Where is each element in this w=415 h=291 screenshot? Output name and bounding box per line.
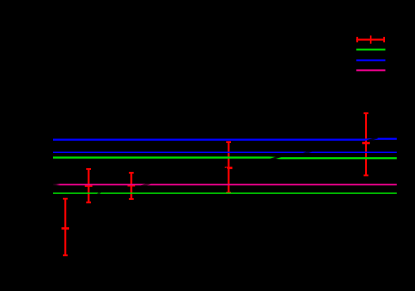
errorbar point 5: [362, 113, 370, 175]
legend green line sample: [356, 49, 385, 51]
green thin line: [53, 192, 397, 194]
errorbar point 2: [85, 169, 93, 202]
errorbar point 1: [62, 199, 70, 256]
black observed-curve notch on magenta line: [142, 183, 151, 187]
black observed-curve notch on green thin line: [97, 191, 100, 197]
black observed-curve notch over errorbar 4 marker: [223, 168, 227, 169]
errorbar point 4: [225, 142, 233, 193]
black observed-curve notch on blue thick line: [367, 137, 377, 141]
legend magenta line sample: [356, 69, 385, 71]
errorbar point 3: [128, 173, 136, 199]
black observed-curve notch on green thick line: [269, 156, 281, 160]
green thick line: [53, 157, 397, 160]
blue thick line: [53, 138, 397, 141]
legend blue line sample: [356, 59, 385, 61]
magenta line: [53, 184, 397, 186]
legend errorbar sample: [356, 36, 385, 44]
blue thin line: [53, 151, 397, 153]
black observed-curve notch on blue thin line: [303, 150, 312, 154]
